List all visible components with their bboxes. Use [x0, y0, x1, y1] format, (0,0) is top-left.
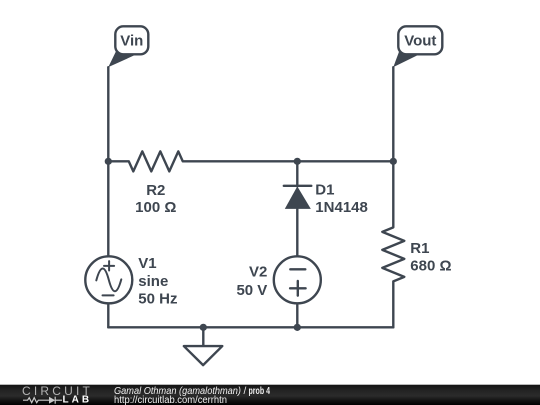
svg-text:50 Hz: 50 Hz: [138, 291, 177, 308]
svg-text:D1: D1: [315, 182, 334, 199]
svg-text:sine: sine: [138, 273, 168, 290]
svg-text:100 Ω: 100 Ω: [135, 199, 176, 216]
svg-text:Vout: Vout: [404, 33, 436, 50]
svg-text:prob 4: prob 4: [249, 386, 271, 397]
svg-text:R1: R1: [410, 240, 429, 257]
svg-text:V2: V2: [249, 264, 267, 281]
svg-text:LAB: LAB: [63, 395, 93, 405]
svg-text:http://circuitlab.com/cerrhtn: http://circuitlab.com/cerrhtn: [114, 395, 227, 405]
svg-text:/: /: [244, 386, 247, 397]
svg-text:V1: V1: [138, 255, 156, 272]
svg-text:680 Ω: 680 Ω: [410, 257, 451, 274]
svg-text:1N4148: 1N4148: [315, 199, 368, 216]
svg-text:Vin: Vin: [120, 33, 143, 50]
svg-text:50 V: 50 V: [236, 282, 267, 299]
svg-text:R2: R2: [146, 182, 165, 199]
